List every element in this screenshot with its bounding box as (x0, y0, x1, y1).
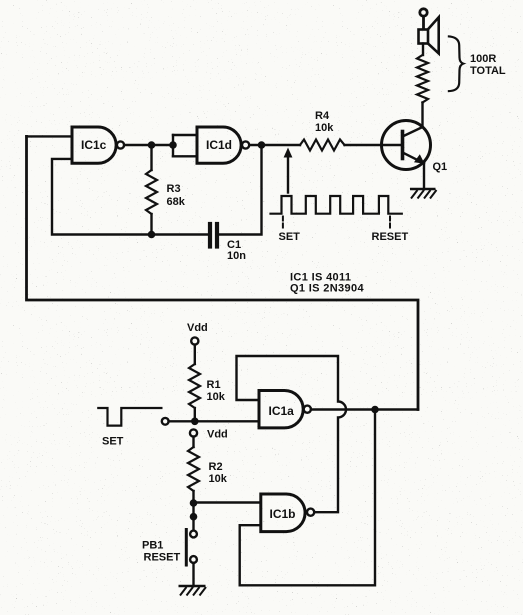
svg-text:68k: 68k (167, 196, 186, 208)
wire IC1c lower input wrap (52, 159, 208, 235)
svg-text:Q1: Q1 (433, 161, 448, 173)
SET input terminal (162, 418, 169, 425)
svg-text:RESET: RESET (372, 231, 409, 243)
transistor Q1 (382, 121, 431, 170)
ground (PB1) (179, 586, 207, 596)
wire speaker to resistor (422, 44, 424, 56)
NAND gate IC1c (72, 127, 116, 163)
ground (Q1 emitter) (410, 189, 437, 199)
svg-text:TOTAL: TOTAL (470, 65, 506, 77)
speaker LS1 (419, 17, 439, 53)
pulse waveform (271, 196, 402, 214)
svg-text:IC1c: IC1c (81, 138, 107, 152)
wire PB1 to ground (192, 563, 194, 586)
IC1d input tie (172, 135, 174, 156)
svg-text:IC1a: IC1a (269, 404, 295, 418)
svg-text:10k: 10k (207, 391, 226, 403)
NAND gate IC1a (259, 391, 303, 428)
svg-text:R2: R2 (209, 461, 223, 473)
svg-text:Vdd: Vdd (207, 429, 228, 441)
node R2 bottom (190, 499, 198, 507)
svg-text:IC1d: IC1d (206, 138, 232, 152)
wire IC1b output loop to IC1a input (with hop) (237, 356, 347, 512)
wire resistor to Q1 collector (421, 103, 423, 128)
wire Q1 emitter to ground (423, 163, 425, 189)
svg-text:10n: 10n (227, 250, 246, 262)
svg-text:SET: SET (102, 436, 124, 448)
NAND gate IC1d (197, 127, 241, 163)
svg-text:10k: 10k (209, 473, 228, 485)
dashed SET marker (282, 217, 284, 229)
wire IC1c upper input (27, 135, 73, 137)
node R3 top (148, 141, 156, 149)
resistor R2 (188, 447, 199, 491)
wire IC1a output loop to IC1b input (240, 410, 375, 586)
pushbutton PB1 (190, 531, 197, 538)
Vdd terminal 2 (190, 429, 197, 436)
svg-text:SET: SET (279, 231, 301, 243)
node R3 bottom (148, 231, 156, 239)
SET input waveform (98, 408, 161, 426)
node IC1d output (258, 141, 266, 149)
wire SET terminal to IC1a input (169, 420, 259, 422)
speaker terminal (420, 9, 427, 16)
svg-text:Vdd: Vdd (187, 322, 208, 334)
node IC1a output (371, 406, 379, 414)
node R1 bottom (191, 418, 199, 426)
wire IC1d output to R4 (249, 144, 300, 146)
svg-text:IC1b: IC1b (270, 507, 296, 521)
node switch stem (190, 513, 198, 521)
Vdd terminal 1 (191, 337, 198, 344)
svg-text:R1: R1 (207, 379, 221, 391)
resistor R3 (150, 145, 152, 170)
svg-text:R4: R4 (315, 110, 330, 122)
svg-text:100R: 100R (470, 53, 496, 65)
wire R2 node to IC1b input (194, 501, 261, 503)
resistor R4 (300, 140, 345, 151)
node IC1d input (169, 141, 177, 149)
resistor R1 (189, 364, 200, 408)
svg-text:RESET: RESET (144, 552, 181, 564)
brace 100R (448, 36, 463, 91)
svg-text:R3: R3 (167, 183, 181, 195)
dashed RESET marker (389, 217, 391, 229)
wire R4 to Q1 base (345, 144, 403, 146)
svg-text:PB1: PB1 (142, 540, 163, 552)
resistor 100R (speaker coil) (417, 55, 428, 103)
capacitor C1 (208, 224, 212, 247)
arrow SET inject (287, 156, 289, 193)
wire IC1a output (311, 408, 418, 410)
long feedback wire IC1a out to IC1c in (27, 136, 419, 409)
wire speaker terminal to speaker (422, 16, 425, 29)
svg-text:10k: 10k (315, 122, 334, 134)
wire IC1c output to IC1d input (124, 144, 173, 146)
svg-text:Q1 IS 2N3904: Q1 IS 2N3904 (290, 283, 364, 295)
wire R2 node to switch (192, 503, 194, 531)
NAND gate IC1b (261, 494, 305, 532)
wire C1 to IC1d output node (219, 145, 261, 235)
